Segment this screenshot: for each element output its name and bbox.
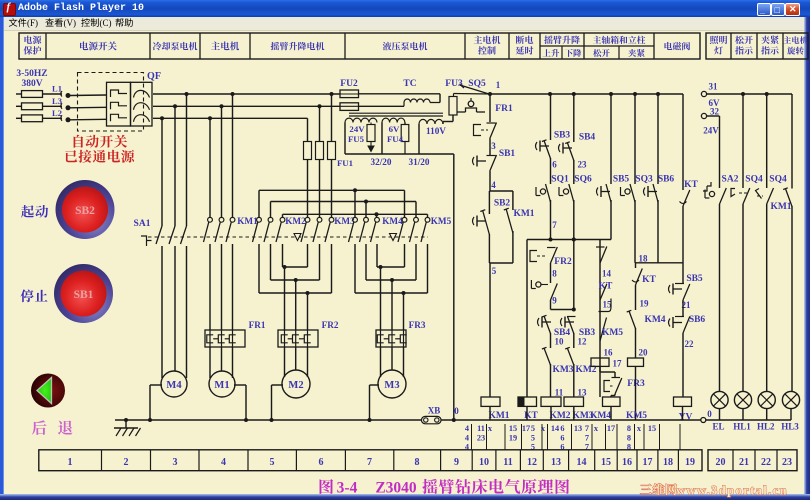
junction (319.5,106.3): [318, 104, 322, 108]
svg-text:6: 6: [319, 457, 324, 468]
svg-text:XB: XB: [428, 406, 441, 416]
svg-text:21: 21: [739, 457, 749, 468]
svg-text:1: 1: [68, 457, 73, 468]
svg-text:KM1: KM1: [770, 202, 791, 212]
header cell 松开指示: [735, 36, 753, 44]
node L1 terminal: [61, 91, 62, 97]
svg-text:(C): (C): [100, 18, 112, 28]
wires FR1 to M1: [209, 347, 211, 378]
svg-text:2: 2: [124, 457, 129, 468]
TC secondary common rail: [345, 153, 454, 155]
svg-text:0: 0: [454, 406, 459, 416]
svg-text:32: 32: [710, 107, 720, 117]
switch SA2 column: [719, 116, 721, 188]
contactor aux KM1 (lamp column): [791, 94, 793, 189]
svg-text:x: x: [488, 424, 493, 433]
svg-text:110V: 110V: [426, 126, 446, 136]
output loop M2 y293: [259, 292, 332, 294]
header cell 冷却泵电机: [153, 42, 198, 51]
fuse FU2 (2 fuses): [340, 90, 359, 98]
svg-text:(F): (F): [27, 18, 38, 28]
junction (175,106.3): [173, 104, 177, 108]
svg-text:(V): (V): [64, 18, 77, 28]
svg-text:20: 20: [639, 348, 649, 358]
svg-text:SB6: SB6: [658, 175, 675, 185]
wire column x635 (SQ3): [634, 94, 636, 184]
KT delay bracket: [599, 299, 612, 312]
QF pole 1: [111, 90, 128, 97]
svg-text:23: 23: [782, 457, 792, 468]
svg-text:5: 5: [270, 457, 275, 468]
svg-text:4: 4: [465, 434, 469, 443]
output loop M3 y267: [377, 266, 405, 268]
label 起动: [21, 205, 48, 218]
svg-text:Z3040: Z3040: [375, 480, 417, 497]
node L3 terminal: [61, 103, 62, 109]
svg-text:13: 13: [574, 424, 582, 433]
header cell 夹紧指示: [761, 36, 778, 44]
svg-text:6: 6: [552, 160, 557, 170]
lamp HL3: [782, 391, 799, 408]
wire node1 down: [489, 94, 491, 122]
fuse FU on phase L1: [16, 93, 22, 95]
header cell 断电延时: [516, 36, 533, 44]
svg-text:19: 19: [640, 299, 650, 309]
svg-text:M2: M2: [288, 380, 303, 391]
svg-text:SB5: SB5: [613, 175, 630, 185]
svg-text:16: 16: [604, 348, 614, 358]
thermal relay FR2 heaters: [278, 330, 318, 347]
svg-text:HL3: HL3: [781, 422, 799, 432]
output loop M3 y293: [355, 292, 428, 294]
crossover loop y214.3: [282, 214, 284, 217]
header cell 电磁阀: [664, 42, 690, 50]
svg-text:SQ4: SQ4: [745, 175, 763, 185]
KM2 pole x259: [257, 217, 262, 222]
KM5 pole x427.5: [425, 217, 430, 222]
motor M2: [282, 370, 310, 398]
svg-text:SB1: SB1: [74, 289, 94, 301]
wire phase L1 top y93: [153, 93, 340, 95]
junctions on 6V line: [741, 92, 745, 96]
node 1: [488, 92, 492, 96]
terminal 32 (24V): [701, 113, 706, 118]
svg-text:SB6: SB6: [689, 315, 706, 325]
wire M2 ground bracket: [272, 384, 284, 386]
svg-text:4: 4: [491, 180, 496, 190]
wire column x658 (SB6): [657, 94, 659, 184]
svg-text:x: x: [637, 424, 642, 433]
svg-text:L3: L3: [52, 96, 62, 106]
svg-text:10: 10: [479, 457, 489, 468]
svg-text:KT: KT: [642, 275, 656, 285]
junction (331.5,94): [330, 92, 334, 96]
wire M4 ground bracket: [150, 384, 162, 386]
thermal relay FR1 heaters: [205, 330, 245, 347]
TC 6V secondary + fuse FU4: [382, 118, 405, 122]
svg-text:24V: 24V: [703, 126, 719, 136]
crossover loop y201.5: [270, 202, 272, 218]
node 3: [489, 139, 491, 156]
svg-text:32/20: 32/20: [371, 157, 392, 167]
svg-text:31: 31: [709, 82, 719, 92]
svg-text:17: 17: [522, 424, 530, 433]
svg-text:14: 14: [577, 457, 587, 468]
svg-text:SQ6: SQ6: [574, 175, 592, 185]
svg-text:KM5: KM5: [431, 216, 452, 226]
limit switch SQ2: [536, 282, 541, 287]
svg-text:M1: M1: [214, 380, 229, 391]
node 4: [489, 171, 491, 191]
svg-text:KM3: KM3: [334, 216, 355, 226]
KM5 pole x404.5: [402, 217, 407, 222]
svg-text:20: 20: [716, 457, 726, 468]
header cell 液压泵电机: [383, 42, 428, 51]
svg-text:8: 8: [415, 457, 420, 468]
KM2 pole x270.5: [268, 217, 273, 222]
window title bar: [0, 0, 810, 17]
header cell 摇臂升降/上升/下降: [544, 36, 580, 45]
lamp EL: [711, 391, 728, 408]
wire phase L3 mid y106.3: [153, 105, 340, 107]
svg-text:8: 8: [627, 434, 631, 443]
svg-text:6V: 6V: [389, 124, 400, 134]
ground bus: [115, 419, 422, 421]
svg-text:3: 3: [173, 457, 178, 468]
TC 24V secondary + fuse FU5: [345, 118, 377, 122]
wire x527 to KT coil: [526, 240, 528, 398]
limit switch SQ3: [625, 189, 630, 194]
node 5: [489, 263, 491, 397]
menu bar: [2, 17, 808, 31]
svg-text:FU5: FU5: [348, 134, 365, 144]
svg-text:5: 5: [531, 434, 535, 443]
svg-text:3-50HZ: 3-50HZ: [16, 69, 47, 79]
contactor aux KM5 (NO): [600, 318, 607, 342]
lamp HL1: [734, 391, 751, 408]
KM3 pole x319.5: [317, 217, 322, 222]
KM3 pole x307.5: [305, 217, 310, 222]
svg-text:QF: QF: [147, 71, 161, 82]
menu text: [9, 18, 27, 27]
label 停止: [20, 289, 47, 302]
svg-text:SB1: SB1: [499, 149, 516, 159]
svg-text:13: 13: [578, 388, 588, 398]
svg-text:22: 22: [685, 339, 695, 349]
limit switch SQ4 column 2: [766, 94, 768, 188]
svg-text:x: x: [594, 424, 599, 433]
svg-text:HL1: HL1: [733, 422, 751, 432]
svg-text:18: 18: [639, 254, 649, 264]
limit switch SQ4 column 1: [742, 94, 744, 188]
svg-text:9: 9: [454, 457, 459, 468]
svg-text:12: 12: [578, 337, 588, 347]
svg-text:www.3dportal.cn: www.3dportal.cn: [676, 484, 788, 498]
svg-text:4: 4: [465, 424, 469, 433]
junction bus x658: [656, 92, 660, 96]
svg-text:5: 5: [492, 266, 497, 276]
junction: [572, 238, 576, 242]
SA1 pole x162: [161, 118, 163, 226]
wire column x550: [550, 94, 552, 140]
pushbutton SB1 (red): [54, 264, 113, 323]
svg-text:10: 10: [555, 337, 565, 347]
svg-text:SB4: SB4: [579, 133, 596, 143]
svg-text:L2: L2: [52, 108, 62, 118]
parallel split SB2/KM1: [489, 190, 513, 192]
svg-text:17: 17: [613, 359, 623, 369]
control bus y94: [490, 93, 683, 95]
zero bus: [441, 419, 701, 421]
thermal relay FR3 heaters: [376, 330, 406, 347]
header cell 电源开关: [80, 41, 117, 50]
svg-text:FU1: FU1: [337, 158, 353, 168]
svg-text:1: 1: [496, 80, 501, 90]
header cell 照明灯: [710, 36, 727, 44]
relay contact FR3 (NC control): [599, 366, 601, 372]
svg-text:7: 7: [552, 220, 557, 230]
wire column x611 (SB5): [610, 94, 612, 184]
wires to FR2: [284, 267, 286, 330]
svg-text:11: 11: [555, 388, 564, 398]
svg-text:HL2: HL2: [757, 422, 775, 432]
wire L3 to QF: [70, 106, 107, 109]
wires FR3 to M3: [380, 347, 382, 377]
svg-text:TC: TC: [403, 79, 416, 89]
svg-text:M4: M4: [166, 380, 182, 391]
pushbutton SB5 (NO): [597, 188, 599, 196]
svg-text:380V: 380V: [21, 79, 42, 89]
svg-text:SQ4: SQ4: [769, 175, 787, 185]
linkage triangle 2: [390, 234, 397, 241]
svg-text:KM1: KM1: [513, 209, 534, 219]
output loop M2 y267: [283, 266, 308, 268]
output loop M2 y280: [271, 279, 320, 281]
junction bus x635: [633, 92, 637, 96]
svg-text:8: 8: [627, 424, 631, 433]
svg-text:SB5: SB5: [686, 274, 703, 284]
svg-text:7: 7: [585, 424, 589, 433]
svg-text:KT: KT: [684, 180, 698, 190]
svg-text:0: 0: [707, 409, 712, 419]
wire column x574: [573, 94, 575, 142]
motor M4: [161, 371, 187, 397]
svg-text:14: 14: [602, 269, 612, 279]
svg-text:14: 14: [551, 424, 559, 433]
svg-text:KM1: KM1: [237, 216, 258, 226]
time contact KT (lower): [635, 263, 637, 268]
svg-text:18: 18: [663, 457, 673, 468]
svg-text:SQ5: SQ5: [468, 79, 486, 89]
lamp HL2: [758, 391, 775, 408]
svg-text:19: 19: [685, 457, 695, 468]
svg-text:23: 23: [578, 160, 588, 170]
svg-text:13: 13: [551, 457, 561, 468]
header cell 主电机: [211, 41, 239, 50]
junction (210,118.3): [208, 116, 212, 120]
SA1 pole x175: [174, 106, 176, 226]
terminal 0 circle: [701, 418, 706, 423]
contactor coil KM1: [481, 397, 500, 406]
svg-text:17: 17: [607, 424, 615, 433]
KM5 pole x416: [414, 217, 419, 222]
wire M3 ground bracket: [370, 384, 380, 386]
time relay coil KT (half filled): [518, 397, 537, 406]
header cell 主轴箱和立柱/松开/夹紧: [593, 36, 645, 44]
TC core: [349, 112, 443, 114]
pushbutton SB6 (NO): [644, 188, 646, 196]
KM1 pole x210: [209, 118, 211, 217]
svg-text:31/20: 31/20: [409, 157, 430, 167]
svg-text:23: 23: [477, 434, 485, 443]
svg-text:5: 5: [531, 424, 535, 433]
text 自动开关已接通电源: [74, 135, 128, 148]
svg-text:SQ1: SQ1: [551, 175, 569, 185]
svg-text:3: 3: [491, 141, 496, 151]
contactor coil KM3: [564, 397, 584, 406]
KM4 pole x366: [364, 217, 369, 222]
wire column x683 (KT): [682, 94, 684, 190]
wire phase L2 bottom y120: [153, 117, 308, 119]
svg-text:11: 11: [477, 424, 485, 433]
crossover loop y190.3: [258, 190, 260, 217]
svg-text:KM4: KM4: [382, 216, 403, 226]
svg-text:SB2: SB2: [494, 199, 511, 209]
svg-text:SA2: SA2: [722, 175, 739, 185]
svg-text:L1: L1: [52, 84, 62, 94]
svg-text:12: 12: [527, 457, 537, 468]
svg-text:KM3: KM3: [552, 365, 573, 375]
QF pole 3: [111, 114, 128, 121]
breaker QF contact block: [107, 82, 131, 126]
junction (162,118.3): [160, 116, 164, 120]
FU1 fuse at x319.5: [319, 106, 321, 141]
contactor coil KM5: [628, 358, 644, 366]
caption 图3-4 Z3040摇臂钻床电气原理图: [320, 479, 334, 494]
svg-text:SA1: SA1: [134, 219, 151, 229]
svg-text:15: 15: [509, 424, 517, 433]
header table box 2: [706, 33, 808, 59]
svg-text:24V: 24V: [349, 124, 365, 134]
back button (green arrow): [31, 374, 65, 408]
contactor coil KM4: [614, 394, 616, 396]
link bar y239.5: [527, 239, 611, 241]
breaker QF dashed enclosure: [78, 73, 144, 132]
wire TC common to 0 bus: [453, 154, 455, 420]
resistor block 16: [591, 358, 609, 366]
svg-text:7: 7: [367, 457, 372, 468]
svg-text:17: 17: [643, 457, 653, 468]
watermark 三维网www.3dportal.cn: [640, 484, 788, 498]
KM4 pole x377: [375, 217, 380, 222]
fuse FU on phase L3: [16, 105, 22, 107]
window borders: [0, 17, 4, 500]
svg-text:9: 9: [552, 296, 557, 306]
svg-text:7: 7: [585, 434, 589, 443]
contactor coil KM2: [541, 397, 561, 406]
header cell 主电机控制: [474, 36, 501, 44]
svg-text:16: 16: [622, 457, 632, 468]
link bar x550-x574: [551, 309, 574, 311]
wires to FR3: [380, 267, 382, 330]
svg-text:19: 19: [509, 434, 517, 443]
svg-text:SB3: SB3: [554, 131, 571, 141]
KM1 pole x221.5: [221, 106, 223, 217]
wire M1 ground bracket: [234, 384, 246, 386]
wire L2 to QF: [70, 118, 107, 121]
svg-text:FR1: FR1: [249, 320, 266, 330]
header table box 1: [19, 33, 700, 59]
bottom number strip box: [39, 450, 702, 471]
svg-text:M3: M3: [384, 380, 399, 391]
node L2 terminal: [61, 115, 62, 121]
terminal 31 (6V): [701, 91, 706, 96]
svg-text:FU2: FU2: [340, 79, 358, 89]
FU1 fuse at x331.5: [331, 94, 333, 142]
svg-text:YV: YV: [679, 413, 693, 423]
junction bus x573.8: [572, 92, 576, 96]
svg-text:SB2: SB2: [75, 205, 95, 217]
link bar y262.8: [635, 262, 683, 264]
svg-text:15: 15: [648, 424, 656, 433]
KM2 pole x282.5: [280, 217, 285, 222]
label 后退: [32, 420, 73, 435]
svg-text:FU4: FU4: [387, 134, 404, 144]
svg-text:8: 8: [552, 269, 557, 279]
TC 110V secondary: [419, 119, 443, 124]
motor M3: [378, 370, 406, 398]
wires FR2 to M2: [284, 347, 286, 377]
junction (186.5,94): [185, 92, 189, 96]
ground symbol: [124, 418, 128, 422]
svg-text:FR1: FR1: [495, 104, 513, 114]
header cell 主电机旋转: [783, 36, 807, 44]
KM3 pole x331.5: [329, 217, 334, 222]
FU1 fuse at x307.5: [307, 118, 309, 141]
svg-text:KM4: KM4: [644, 315, 665, 325]
svg-text:22: 22: [761, 457, 771, 468]
svg-text:KM2: KM2: [285, 216, 306, 226]
junction bus x550: [548, 92, 552, 96]
fuse FU on phase L2: [16, 117, 22, 119]
linkage triangle 1: [294, 234, 301, 241]
svg-text:6: 6: [560, 424, 564, 433]
svg-text:SQ3: SQ3: [635, 175, 653, 185]
solenoid valve coil YV: [674, 397, 692, 406]
svg-text:4: 4: [221, 457, 226, 468]
mechanical linkage dashed: [148, 236, 428, 238]
branch x600 from bar: [599, 240, 601, 398]
SA1 pole x186.5: [186, 94, 188, 226]
pushbutton SB2 (red): [56, 180, 115, 239]
svg-text:FR2: FR2: [322, 320, 339, 330]
KM4 pole x355: [353, 217, 358, 222]
wire L1 to QF: [70, 94, 107, 97]
bottom strip box 20-23: [708, 450, 797, 471]
output loop M3 y280: [366, 279, 416, 281]
svg-text:3-4: 3-4: [337, 480, 358, 497]
svg-text:KM5: KM5: [602, 328, 623, 338]
KM1 pole x232.5: [232, 94, 234, 217]
svg-text:6: 6: [560, 434, 564, 443]
junction: [549, 238, 553, 242]
motor M1: [209, 371, 235, 397]
svg-text:FR3: FR3: [409, 320, 426, 330]
header cell 电源保护: [24, 36, 41, 44]
header cell 摇臂升降电机: [271, 42, 325, 51]
junction bus x611: [609, 92, 613, 96]
junction (232.5,94): [231, 92, 235, 96]
